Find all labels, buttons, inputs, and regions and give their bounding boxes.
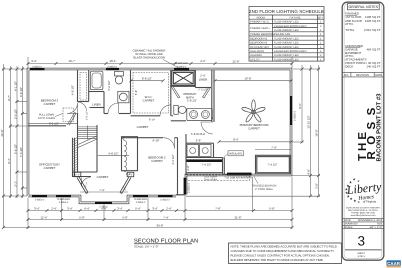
svg-text:★: ★	[353, 178, 356, 182]
svg-text:SCALE:: SCALE:	[344, 226, 354, 229]
tub hall bath	[90, 71, 103, 90]
svg-text:9'-1": 9'-1"	[7, 158, 11, 164]
svg-text:4'-8 1/2": 4'-8 1/2"	[71, 85, 75, 95]
svg-text:CARPET: CARPET	[143, 99, 155, 103]
svg-text:2,510 SQ.FT.: 2,510 SQ.FT.	[364, 28, 381, 32]
svg-text:DATE: DATE	[375, 74, 382, 77]
revision row	[343, 72, 384, 77]
svg-text:REVISION: REVISION	[356, 74, 369, 77]
svg-text:3'-6": 3'-6"	[196, 139, 202, 143]
svg-text:4'-8 1/2": 4'-8 1/2"	[108, 151, 118, 155]
dimension row1 bottom	[4, 177, 293, 229]
door arc bedroom2	[164, 138, 175, 149]
svg-text:9'-10": 9'-10"	[152, 139, 159, 143]
svg-text:2ND FLOOR LIGHTING SCHEDULE: 2ND FLOOR LIGHTING SCHEDULE	[249, 9, 324, 14]
wall bedroom2 top	[122, 137, 164, 139]
svg-text:8'-7": 8'-7"	[7, 95, 11, 101]
svg-text:TOTAL: TOTAL	[345, 28, 354, 32]
svg-text:3'-8 1/2": 3'-8 1/2"	[19, 87, 23, 97]
svg-text:FLUSH MOUNT LED: FLUSH MOUNT LED	[274, 42, 299, 45]
svg-text:22'-8": 22'-8"	[0, 129, 4, 136]
svg-text:CARPET: CARPET	[44, 166, 56, 170]
window right wall primary bedroom	[290, 96, 292, 125]
interior dims	[49, 74, 278, 176]
svg-text:PRIMARY BATH: PRIMARY BATH	[250, 27, 269, 30]
window band primary bedroom bottom	[227, 173, 252, 176]
svg-text:2'-1": 2'-1"	[13, 181, 17, 187]
wall office/funnel top	[72, 176, 91, 178]
interior walls	[28, 70, 291, 195]
window labels top	[32, 62, 188, 68]
svg-text:5'-4": 5'-4"	[135, 206, 141, 210]
door arc primary bedroom	[201, 122, 213, 134]
wall linen2	[194, 70, 196, 88]
dimension lines right	[186, 65, 320, 212]
svg-text:BACONS POINT LOT #3: BACONS POINT LOT #3	[376, 93, 383, 162]
svg-text:LINEN: LINEN	[199, 78, 208, 82]
wall hall bath bottom	[104, 113, 108, 115]
svg-text:7'-4": 7'-4"	[99, 188, 105, 192]
svg-text:4'-4": 4'-4"	[84, 206, 90, 210]
svg-text:PRIMARY W.I.C.: PRIMARY W.I.C.	[250, 21, 270, 24]
svg-text:DECK: DECK	[345, 64, 353, 68]
door leaf primary bath right	[203, 87, 211, 98]
wall stair right	[96, 125, 98, 172]
note pull down attic stairs	[38, 114, 55, 120]
svg-text:2 BULB BATHROOM LIGHT: 2 BULB BATHROOM LIGHT	[274, 25, 307, 28]
dimension ticks row1	[2, 209, 294, 229]
svg-text:5'-8 1/2": 5'-8 1/2"	[13, 144, 17, 154]
svg-text:3'-4": 3'-4"	[152, 206, 158, 210]
svg-text:2-2852-2: 2-2852-2	[59, 201, 69, 204]
dimension recess	[80, 191, 128, 193]
title block frame	[342, 2, 384, 260]
svg-text:HALLWAY: HALLWAY	[250, 54, 262, 57]
wall closet2 scalloped box	[122, 137, 138, 171]
svg-text:9'-2": 9'-2"	[298, 103, 302, 109]
wall inner white core	[28, 69, 291, 203]
svg-text:QTY: QTY	[318, 16, 324, 19]
svg-text:FLUSH MOUNT LED: FLUSH MOUNT LED	[274, 21, 299, 24]
svg-text:CARPET: CARPET	[97, 175, 109, 179]
wall knee closet right room	[256, 155, 291, 174]
svg-text:NOTE: THESE PLANS ARE DEEMED A: NOTE: THESE PLANS ARE DEEMED ACCURATE BU…	[231, 245, 337, 249]
window bottom wall bedroom2	[158, 195, 173, 197]
svg-text:NO.: NO.	[344, 74, 349, 77]
leader to shower	[163, 60, 180, 69]
svg-text:HALL BATH: HALL BATH	[250, 50, 264, 53]
dimension lines left	[2, 64, 27, 228]
svg-text:FLUSH MOUNT LED: FLUSH MOUNT LED	[274, 46, 299, 49]
date drawn scale table	[343, 218, 384, 228]
window top wall bedroom3	[30, 68, 45, 70]
svg-text:5'-10": 5'-10"	[149, 119, 155, 122]
svg-text:ATTIC: ATTIC	[345, 22, 353, 26]
svg-text:2-2852-2: 2-2852-2	[107, 65, 117, 68]
svg-text:7/16 OSB AIR BARRIER: 7/16 OSB AIR BARRIER	[224, 176, 252, 179]
underline finished	[345, 14, 357, 16]
wall stair bottom	[72, 171, 97, 173]
svg-text:5'-8 W PLD: 5'-8 W PLD	[191, 132, 205, 136]
dormer cheek left wall	[74, 172, 88, 193]
svg-text:10'-1": 10'-1"	[109, 59, 116, 63]
exterior walls	[28, 69, 291, 203]
svg-text:2-2852-2: 2-2852-2	[188, 182, 191, 193]
svg-text:2'-2": 2'-2"	[75, 174, 80, 177]
wall utility area left	[185, 134, 187, 175]
svg-text:CARPET: CARPET	[151, 159, 163, 163]
office wall hatch	[73, 138, 78, 172]
wall storage mid	[186, 172, 223, 174]
svg-text:MECHANICSVILLE, VA 23116: MECHANICSVILLE, VA 23116	[348, 209, 378, 212]
svg-text:16'-7": 16'-7"	[68, 59, 75, 63]
general notes list	[345, 12, 381, 69]
window bottom wall bedroom2 tempered	[133, 195, 148, 197]
svg-text:21'-8": 21'-8"	[234, 215, 241, 219]
svg-text:13'-10 1/2": 13'-10 1/2"	[307, 115, 311, 128]
wic shelf dashed	[133, 73, 169, 114]
room labels	[39, 78, 269, 180]
svg-text:2-2852-2: 2-2852-2	[160, 199, 170, 202]
door leaf bedroom3	[68, 113, 77, 126]
svg-text:34'-8": 34'-8"	[156, 223, 163, 227]
ceramic tile shower note	[133, 49, 166, 60]
wall wic bottom	[131, 115, 161, 117]
dimension texts left rotated	[0, 81, 23, 187]
window dormer recess	[95, 202, 112, 204]
ceiling fan primary bedroom	[241, 100, 265, 123]
svg-text:2-2852-2: 2-2852-2	[294, 110, 297, 121]
dimension texts top	[31, 59, 239, 64]
wall primary bath bottom	[171, 120, 186, 122]
toilet primary bath	[174, 105, 178, 114]
wall bedroom3 right	[77, 70, 79, 102]
svg-text:5'-8": 5'-8"	[134, 90, 138, 96]
svg-text:8'-8 1/2": 8'-8 1/2"	[142, 77, 152, 81]
caar badge	[387, 260, 401, 266]
svg-text:1325 SQ.FT.: 1325 SQ.FT.	[365, 19, 381, 23]
svg-text:FLUSH MOUNT LED: FLUSH MOUNT LED	[274, 29, 299, 32]
wall shower bottom	[171, 85, 196, 87]
closet shelf dashed bedroom3	[80, 73, 87, 101]
svg-text:★: ★	[353, 199, 356, 203]
dimension texts right rotated	[298, 103, 319, 189]
svg-text:PRIMAR BEDROOM: PRIMAR BEDROOM	[250, 33, 274, 36]
svg-text:2-2852-2: 2-2852-2	[32, 65, 42, 68]
wall stair left	[77, 127, 79, 173]
svg-text:OFFICE/STUDY: OFFICE/STUDY	[250, 46, 269, 49]
svg-text:CARPET: CARPET	[137, 125, 149, 129]
svg-text:PLEASE CONSULT SALES CONTRACT: PLEASE CONSULT SALES CONTRACT FOR ACTUAL…	[231, 253, 330, 257]
svg-text:ATTIC STAIRS: ATTIC STAIRS	[38, 117, 55, 120]
svg-text:7'-4": 7'-4"	[271, 146, 277, 150]
svg-text:2-2852-2: 2-2852-2	[177, 65, 187, 68]
svg-text:CARPET: CARPET	[44, 102, 56, 106]
wall bedroom3 closet	[88, 70, 90, 102]
dimension ticks left	[2, 68, 24, 198]
svg-text:3 OF 5: 3 OF 5	[358, 255, 366, 258]
svg-text:BUILDER RESERVES THE RIGHT TO: BUILDER RESERVES THE RIGHT TO MAKE CHANG…	[231, 258, 324, 262]
wall bedroom3 bottom	[28, 125, 66, 127]
svg-text:3'-4": 3'-4"	[31, 59, 37, 63]
svg-text:BEDROOM #3: BEDROOM #3	[250, 42, 268, 45]
dimension ticks top	[27, 62, 294, 65]
door arc office	[81, 178, 90, 187]
wall linen1	[103, 92, 105, 114]
svg-text:2-2852-2: 2-2852-2	[136, 201, 146, 204]
svg-text:UTILITY: UTILITY	[250, 58, 260, 61]
svg-text:3: 3	[358, 234, 366, 249]
svg-text:2'-4": 2'-4"	[51, 206, 57, 210]
note tile over this area	[204, 176, 252, 182]
interior dim lines	[28, 81, 291, 156]
svg-text:4'-8": 4'-8"	[307, 169, 311, 175]
svg-text:2-456-2: 2-456-2	[99, 206, 108, 209]
wall utility top	[186, 142, 214, 144]
svg-text:2'-8": 2'-8"	[315, 183, 319, 189]
svg-text:GLASS SHOWER DOOR: GLASS SHOWER DOOR	[133, 56, 165, 60]
door leaf primary bath left	[172, 87, 180, 98]
interior dim ticks	[130, 79, 293, 143]
attic stairs dashed	[63, 108, 74, 122]
svg-text:2'-3 1/2": 2'-3 1/2"	[198, 89, 207, 92]
svg-text:18'-8": 18'-8"	[315, 129, 319, 136]
svg-text:2'-8 1/2": 2'-8 1/2"	[187, 98, 197, 102]
stair treads	[78, 126, 97, 148]
svg-text:5'-6 1/2": 5'-6 1/2"	[107, 80, 111, 90]
svg-text:3'-4": 3'-4"	[67, 206, 73, 210]
svg-text:3'-4": 3'-4"	[34, 206, 40, 210]
window top wall hall	[106, 68, 119, 70]
window top wall shower tempered	[174, 68, 189, 70]
svg-text:5'-8": 5'-8"	[79, 215, 85, 219]
svg-text:4'-2": 4'-2"	[200, 59, 206, 63]
svg-text:2'-2": 2'-2"	[126, 172, 132, 176]
lighting schedule rows	[250, 21, 322, 62]
window side dark bar	[184, 178, 187, 195]
svg-text:2'-5 1/2": 2'-5 1/2"	[86, 111, 89, 120]
svg-text:LINEN: LINEN	[92, 103, 101, 107]
address lines	[346, 206, 380, 217]
svg-text:3'-2 1/2": 3'-2 1/2"	[171, 154, 175, 164]
svg-text:2-2852-2: 2-2852-2	[35, 199, 45, 202]
wall office right	[72, 138, 74, 177]
svg-text:FIXTURE: FIXTURE	[289, 16, 300, 19]
svg-text:22'-8": 22'-8"	[232, 60, 239, 64]
svg-text:7'-4 1/2": 7'-4 1/2"	[201, 163, 211, 167]
svg-text:SCALE: 1/4" = 1'-0": SCALE: 1/4" = 1'-0"	[134, 245, 158, 249]
door arc wic	[160, 105, 171, 116]
window bottom wall office 2 tempered	[56, 195, 71, 197]
svg-text:of Virginia: of Virginia	[363, 200, 377, 204]
svg-text:7'-4": 7'-4"	[163, 215, 169, 219]
tile over dashed band	[187, 175, 250, 181]
note box bottom	[229, 243, 342, 264]
svg-text:484 SQ.FT.: 484 SQ.FT.	[366, 47, 381, 51]
svg-text:CHANGES DUE TO CODE REQUIREMEN: CHANGES DUE TO CODE REQUIREMENTS AND MEC…	[231, 249, 335, 253]
svg-text:140 SQ.FT.: 140 SQ.FT.	[366, 64, 381, 68]
closet2 scallop bifold	[122, 138, 127, 172]
svg-text:FLUSH MOUNT LED: FLUSH MOUNT LED	[274, 54, 299, 57]
svg-text:7'-8": 7'-8"	[215, 206, 221, 210]
washer dryer utility	[187, 145, 199, 157]
toilet hall bath	[115, 72, 124, 76]
svg-text:THIS AREA: THIS AREA	[204, 179, 217, 182]
svg-text:CARPET: CARPET	[248, 127, 260, 131]
svg-text:FLUSH MOUNT LED: FLUSH MOUNT LED	[274, 58, 299, 61]
shower ceramic tile	[172, 71, 195, 86]
door arc bedroom3 hall	[78, 102, 87, 111]
svg-text:8'-4": 8'-4"	[233, 138, 239, 142]
svg-text:1/4" = 1'-0": 1/4" = 1'-0"	[369, 226, 382, 229]
svg-text:CEILING FAN: CEILING FAN	[274, 33, 290, 36]
stars arc	[345, 178, 361, 205]
note insulate	[228, 151, 244, 156]
window labels bottom	[35, 198, 171, 208]
svg-text:INSULATE: INSULATE	[229, 152, 243, 156]
dimension ticks right	[301, 68, 321, 198]
dimension lines top	[27, 57, 292, 68]
svg-text:12'-4": 12'-4"	[40, 215, 47, 219]
door arc hall bath	[108, 103, 119, 114]
svg-text:3'-0 1/2": 3'-0 1/2"	[13, 109, 17, 119]
svg-text:2'-8": 2'-8"	[186, 165, 190, 171]
svg-text:5'-8": 5'-8"	[269, 206, 275, 210]
wall primary bath right / bedroom left	[211, 70, 213, 122]
svg-text:www.libertyhomesva.com: www.libertyhomesva.com	[351, 214, 376, 217]
window bottom wall office 1	[32, 195, 47, 197]
lighting schedule table	[249, 7, 324, 62]
door arc bedroom3	[67, 103, 78, 114]
svg-text:7'-4 1/2": 7'-4 1/2"	[267, 163, 277, 167]
svg-text:2'-4": 2'-4"	[200, 74, 206, 78]
svg-text:2" PONY WALL: 2" PONY WALL	[255, 188, 274, 191]
vanity primary bath	[187, 108, 213, 120]
svg-text:BEDROOM #2: BEDROOM #2	[250, 37, 268, 40]
svg-text:4 BULB BATHROOM LIGHT: 4 BULB BATHROOM LIGHT	[274, 50, 307, 53]
svg-text:GENERAL NOTES: GENERAL NOTES	[348, 5, 378, 9]
svg-text:2'-4": 2'-4"	[166, 206, 172, 210]
svg-text:3'-4": 3'-4"	[117, 206, 123, 210]
svg-text:CAAR: CAAR	[387, 261, 401, 266]
wall utility bottom	[186, 157, 223, 159]
wall bedroom2 right	[177, 138, 179, 195]
dimension texts bottom	[34, 206, 275, 227]
svg-text:5'-8": 5'-8"	[122, 215, 128, 219]
sink hall bath	[118, 91, 129, 103]
svg-text:4'-1 1/2": 4'-1 1/2"	[13, 81, 17, 91]
svg-text:7'-0 1/2": 7'-0 1/2"	[19, 147, 23, 157]
wall wic right / shower left	[170, 70, 172, 116]
svg-text:ROOM: ROOM	[257, 16, 265, 19]
general notes header	[347, 4, 379, 10]
svg-text:16'-8": 16'-8"	[244, 77, 251, 81]
wall hall bath right	[130, 70, 132, 114]
note trusses bear	[252, 185, 277, 192]
insulate dark wall	[187, 159, 223, 162]
liberty homes logo	[345, 178, 383, 205]
svg-text:5429 CROSS COUNTY HIGHWAY: 5429 CROSS COUNTY HIGHWAY	[346, 206, 380, 209]
dormer cheek right wall	[120, 172, 134, 193]
svg-text:FLUSH MOUNT LED: FLUSH MOUNT LED	[274, 37, 299, 40]
